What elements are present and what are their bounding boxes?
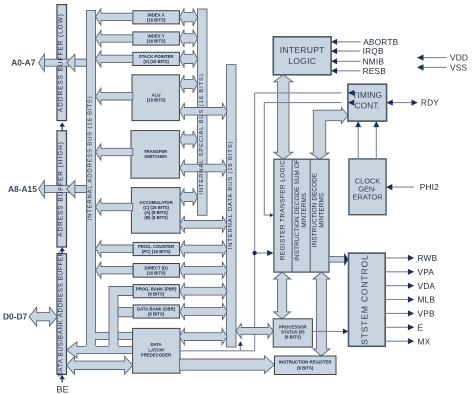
wire: transfer switches to internal data bus xyxy=(180,160,227,177)
svg-text:INTERNAL DATA BUS (16 BITS): INTERNAL DATA BUS (16 BITS) xyxy=(228,141,234,250)
svg-text:A0-A7: A0-A7 xyxy=(11,58,36,68)
data bus/bank address buffer xyxy=(57,254,67,375)
svg-text:(8 BITS): (8 BITS) xyxy=(285,334,302,339)
internal address bus (16 bits) xyxy=(87,11,96,354)
svg-text:LOGIC: LOGIC xyxy=(288,56,316,66)
wire: prog counter to internal data bus xyxy=(180,241,227,258)
wire: ALU to internal special bus xyxy=(180,75,198,93)
wire: A0-A7 shaft through buffer xyxy=(44,59,86,66)
svg-text:DATA BUS/BANK ADDRESS BUFFER: DATA BUS/BANK ADDRESS BUFFER xyxy=(57,251,64,377)
svg-text:PHI2: PHI2 xyxy=(420,182,439,192)
wire: to register transfer logic with junction dot xyxy=(255,252,268,254)
wire: RDY xyxy=(393,102,412,104)
bus: instruction decode to system control xyxy=(329,257,345,263)
wire: RWB output xyxy=(385,257,408,259)
wire: ALU to internal address bus xyxy=(96,88,133,104)
register stack pointer S xyxy=(133,52,180,65)
bus: data buffer to data latch xyxy=(67,356,133,374)
wire: index Y to internal address bus xyxy=(96,30,133,46)
bus: timing control to instruction decode minterms xyxy=(310,108,348,160)
wire: accumulator to internal special bus xyxy=(180,188,198,206)
wire: prog counter to internal address bus xyxy=(96,241,133,257)
svg-text:RDY: RDY xyxy=(421,98,439,108)
svg-text:(S) (16 BITS): (S) (16 BITS) xyxy=(143,59,169,64)
wire: instruction decode minterms to instruction register xyxy=(313,272,330,356)
interrupt logic box xyxy=(273,37,331,75)
svg-text:A8-A15: A8-A15 xyxy=(8,184,37,194)
processor status register P xyxy=(273,319,312,347)
wire: stack pointer to internal address bus xyxy=(96,51,133,67)
wire: data latch to internal data bus xyxy=(179,328,227,344)
svg-text:STSTEM CONTROL: STSTEM CONTROL xyxy=(359,254,369,344)
svg-text:RWB: RWB xyxy=(418,253,438,263)
register index X xyxy=(133,11,180,24)
register direct register D xyxy=(133,264,179,278)
svg-text:ERATOR: ERATOR xyxy=(352,192,382,201)
address buffer (low) xyxy=(57,5,67,121)
bus: PBR L-bus down to bank address bus xyxy=(109,287,133,351)
arrowhead: A8-A15 out xyxy=(39,180,45,198)
arrow: high buffer to low buffer xyxy=(61,126,63,131)
junction patch: address bus into bank bus xyxy=(86,346,96,353)
wire: D0-D7 bidirectional arrow xyxy=(29,307,57,326)
wire: direct to internal address bus xyxy=(96,262,133,278)
wire: timing control feedback (right) xyxy=(263,103,265,216)
svg-text:MINTERMS: MINTERMS xyxy=(301,193,308,228)
wire: data latch predecode feedback xyxy=(180,350,255,352)
svg-text:VPA: VPA xyxy=(418,267,435,277)
wire: data bank to internal data bus xyxy=(180,303,227,320)
wire: IRQB input xyxy=(337,50,361,52)
svg-text:REGISTER TRANSFER LOGIC: REGISTER TRANSFER LOGIC xyxy=(280,160,287,261)
svg-text:INSTRUCTION REGISTER: INSTRUCTION REGISTER xyxy=(279,360,332,365)
svg-text:VSS: VSS xyxy=(450,63,467,73)
wire: NMIB input xyxy=(337,60,361,62)
wire: register transfer logic to processor status xyxy=(274,272,291,319)
svg-text:E: E xyxy=(418,322,424,332)
instruction register xyxy=(275,356,337,375)
data latch / predecoder xyxy=(133,328,180,373)
wire: accumulator to internal address bus xyxy=(96,199,133,215)
svg-text:ADRESS BUFFER (HIGH): ADRESS BUFFER (HIGH) xyxy=(57,141,64,237)
wire: direct to internal data bus xyxy=(180,262,227,279)
junction patch: address bus through band C xyxy=(87,333,96,339)
wire: index X to internal address bus xyxy=(96,9,133,25)
wire: A8-A15 shaft through buffer xyxy=(44,186,86,193)
svg-text:MLB: MLB xyxy=(418,295,436,305)
accumulator xyxy=(131,188,180,234)
svg-text:(8 BITS): (8 BITS) xyxy=(148,291,165,296)
register program bank PBR xyxy=(133,285,179,298)
wire: VSS supply xyxy=(424,66,447,68)
bus: bank address into data bus/bank address buffer xyxy=(67,342,133,358)
svg-text:INTERNAL ADDRESS BUS (16 BITS): INTERNAL ADDRESS BUS (16 BITS) xyxy=(88,96,94,221)
svg-text:CONT.: CONT. xyxy=(354,101,380,111)
svg-text:BE: BE xyxy=(56,384,69,394)
svg-text:ADDRESS BUFFER (LOW): ADDRESS BUFFER (LOW) xyxy=(57,13,64,112)
svg-text:(16 BITS): (16 BITS) xyxy=(147,39,166,44)
svg-text:IRQB: IRQB xyxy=(363,46,384,56)
svg-text:D0-D7: D0-D7 xyxy=(3,312,28,322)
register data bank DBR xyxy=(133,305,179,318)
svg-text:(16 BITS): (16 BITS) xyxy=(147,98,166,103)
wire: index Y to internal special bus xyxy=(180,30,198,48)
arrowhead: into address buffer high xyxy=(67,180,75,197)
svg-text:VDD: VDD xyxy=(450,53,468,63)
timing control box xyxy=(348,84,387,121)
wire: accumulator to internal data bus xyxy=(180,216,227,233)
register program counter PC xyxy=(133,242,179,255)
arrowhead: A0-A7 out xyxy=(39,54,45,72)
svg-text:RESB: RESB xyxy=(363,66,387,76)
svg-text:NMIB: NMIB xyxy=(363,56,385,66)
arrowhead: into address buffer low xyxy=(67,54,75,71)
internal special bus (16 bits) xyxy=(198,9,208,215)
svg-text:SWITCHES: SWITCHES xyxy=(144,154,167,159)
wire: address bus to low buffer xyxy=(75,59,87,66)
wire: ALU to internal data bus xyxy=(180,103,227,120)
wire: MX output xyxy=(385,340,408,342)
wire: interrupt logic to register transfer logic xyxy=(274,75,293,159)
ALU xyxy=(132,75,179,121)
svg-text:PREDECODER: PREDECODER xyxy=(141,353,172,358)
wire: VPA output xyxy=(385,271,408,273)
svg-text:(16 BITS): (16 BITS) xyxy=(147,271,166,276)
wire: stack pointer to internal special bus xyxy=(180,50,198,68)
divider lines of decode block xyxy=(291,159,293,272)
svg-text:(B) (8 BITS): (B) (8 BITS) xyxy=(144,215,168,220)
wire: PHI2 input xyxy=(392,186,414,188)
system control box xyxy=(349,253,386,346)
wire: ABORTB input xyxy=(337,41,361,43)
wire: transfer switches to internal address bus xyxy=(96,144,133,160)
address buffer (high) xyxy=(57,131,67,247)
wire: timing control feedback (left, long) xyxy=(254,93,256,351)
wire: clock to timing 2 xyxy=(375,127,377,159)
svg-text:(16 BITS): (16 BITS) xyxy=(147,17,166,22)
arrow: BE into data buffer xyxy=(61,379,63,383)
svg-text:TIMING: TIMING xyxy=(352,90,382,100)
svg-text:(8 BITS): (8 BITS) xyxy=(297,365,314,370)
svg-text:(PC) (16 BITS): (PC) (16 BITS) xyxy=(142,249,171,254)
wire: clock to timing 1 xyxy=(357,127,359,159)
svg-text:(8 BITS): (8 BITS) xyxy=(148,312,165,317)
wire: VDA output xyxy=(385,285,408,287)
wire: MLB output xyxy=(385,299,408,301)
register index Y xyxy=(133,32,180,45)
svg-text:MX: MX xyxy=(418,336,431,346)
wire: index X to internal special bus xyxy=(180,8,198,26)
transfer switches xyxy=(131,131,179,179)
junction dot xyxy=(252,251,256,255)
wire: VPB output xyxy=(385,312,408,314)
wire: RESB input xyxy=(337,70,361,72)
svg-text:VDA: VDA xyxy=(418,281,436,291)
svg-text:MINTERMS: MINTERMS xyxy=(318,193,325,228)
wire: processor status to system control xyxy=(312,330,343,332)
clock generator box xyxy=(349,159,386,215)
wire: E output xyxy=(385,326,408,328)
bus: data latch to internal address bus (band C) xyxy=(96,332,133,339)
bus: predecoder to instruction register xyxy=(179,356,274,374)
svg-text:VPB: VPB xyxy=(418,309,435,319)
wire: address bus to high buffer xyxy=(75,186,87,193)
svg-text:INTERNAL SPECIAL BUS (16 BITS): INTERNAL SPECIAL BUS (16 BITS) xyxy=(199,73,205,194)
wire: prog bank to internal data bus xyxy=(180,283,227,300)
bus: DBR arm joining PBR bus xyxy=(118,308,133,317)
junction patch: PBR bus into bank bus xyxy=(109,346,119,353)
wire: VDD supply xyxy=(424,57,447,59)
svg-text:INTERUPT: INTERUPT xyxy=(280,45,325,55)
internal data bus (16 bits) xyxy=(227,65,237,347)
wire: transfer switches to internal special bus xyxy=(180,131,198,149)
arrow: data buffer to high buffer xyxy=(61,250,63,253)
wire: internal data bus to processor status xyxy=(236,324,273,339)
decode block (register transfer logic / instruction decode) xyxy=(274,159,329,272)
